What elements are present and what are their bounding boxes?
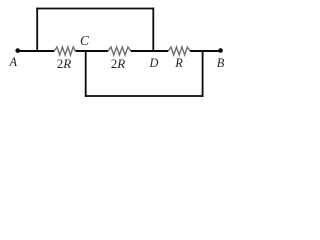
wire resistor R3 to node B xyxy=(190,50,220,52)
wire riser left (junction to top rail) xyxy=(36,8,38,51)
svg-text:B: B xyxy=(217,56,225,70)
svg-text:R: R xyxy=(174,56,183,70)
svg-text:2R: 2R xyxy=(111,56,126,71)
wire resistor R2 to resistor R3 (through node D) xyxy=(131,50,169,52)
wire riser right (top rail down to node D) xyxy=(152,8,154,51)
node A xyxy=(15,48,20,53)
svg-text:A: A xyxy=(8,55,17,69)
wire top rail xyxy=(36,8,154,10)
svg-text:C: C xyxy=(80,33,90,48)
resistor R1 xyxy=(54,47,75,55)
wire A to resistor 2R (left segment) xyxy=(18,50,54,52)
wire resistor R1 to resistor R2 (through node C) xyxy=(75,50,108,52)
wire drop right to bottom rail xyxy=(202,51,204,97)
node B xyxy=(218,48,223,53)
resistor R3 xyxy=(168,47,190,55)
wire bottom rail xyxy=(85,95,204,97)
svg-text:2R: 2R xyxy=(57,56,72,71)
wire drop from node C to bottom rail xyxy=(85,51,87,97)
svg-text:D: D xyxy=(149,56,159,70)
resistor R2 xyxy=(108,47,131,55)
